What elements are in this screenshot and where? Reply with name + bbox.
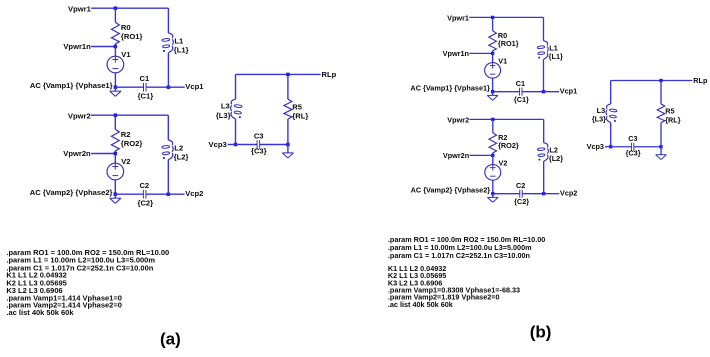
wire resistor top lead — [114, 115, 116, 129]
wire mid rail — [91, 46, 115, 48]
wire bottom rail right — [522, 91, 544, 93]
svg-text:{L3}: {L3} — [216, 111, 231, 120]
wire right rail upper — [167, 8, 169, 33]
wire right rail upper — [542, 17, 544, 40]
junction bottom left — [114, 85, 118, 89]
svg-text:{L3}: {L3} — [592, 115, 606, 124]
ground — [492, 92, 494, 96]
wire right rail lower — [660, 123, 662, 147]
capacitor C1 — [519, 88, 521, 96]
junction mid — [114, 152, 118, 156]
resistor R2 — [111, 129, 119, 150]
wire right rail upper — [287, 74, 289, 99]
svg-text:Vpwr2: Vpwr2 — [447, 116, 469, 125]
wire top rail — [91, 114, 168, 116]
svg-text:AC {Vamp2} {Vphase2}: AC {Vamp2} {Vphase2} — [30, 188, 113, 197]
wire bottom rail right — [260, 144, 288, 146]
svg-text:Vpwr1n: Vpwr1n — [63, 42, 91, 51]
svg-text:Vcp3: Vcp3 — [209, 140, 227, 149]
svg-text:{C3}: {C3} — [251, 147, 267, 156]
svg-text:(b): (b) — [530, 322, 552, 341]
svg-text:Vpwr1: Vpwr1 — [447, 14, 469, 23]
svg-text:L2: L2 — [549, 146, 558, 155]
svg-text:V2: V2 — [121, 157, 130, 166]
wire Vcp2 stub — [168, 193, 184, 195]
junction bottom right — [542, 192, 545, 195]
wire bottom rail left — [236, 144, 258, 146]
wire bottom rail right — [146, 86, 168, 88]
inductor L3 — [607, 104, 611, 109]
wire mid rail — [469, 154, 492, 156]
svg-text:.ac list 40k 50k 60k: .ac list 40k 50k 60k — [6, 308, 74, 317]
resistor R0 — [489, 31, 497, 51]
svg-text:R0: R0 — [121, 23, 131, 32]
svg-text:R5: R5 — [292, 102, 302, 111]
resistor R5 — [284, 99, 292, 119]
junction bottom right — [659, 145, 662, 148]
spice directives (a) — [6, 248, 169, 317]
wire left rail upper — [235, 74, 237, 99]
wire resistor top lead — [492, 17, 494, 30]
junction bottom right — [167, 192, 171, 196]
wire right rail lower — [287, 119, 289, 145]
wire bottom rail left — [493, 91, 520, 93]
svg-text:Vpwr2n: Vpwr2n — [63, 149, 91, 158]
wire top rail — [91, 7, 168, 9]
ground — [287, 145, 289, 153]
svg-text:L2: L2 — [174, 144, 183, 153]
wire bottom rail right — [634, 146, 661, 148]
svg-text:C3: C3 — [628, 134, 637, 143]
wire resistor top lead — [114, 8, 116, 22]
wire right rail upper — [167, 115, 169, 140]
inductor L3 — [231, 99, 235, 104]
capacitor C3 — [630, 143, 632, 151]
wire bottom rail left — [611, 146, 632, 148]
svg-text:R2: R2 — [121, 130, 131, 139]
resistor R0 — [111, 22, 119, 43]
voltage source V1 — [107, 56, 124, 73]
wire top rail — [469, 118, 543, 120]
svg-text:{RO2}: {RO2} — [498, 141, 519, 150]
junction bottom left — [114, 192, 118, 196]
schematic (b) source block 1 — [410, 14, 577, 105]
inductor L1 — [543, 41, 547, 46]
junction bottom left — [491, 192, 494, 195]
svg-text:{C1}: {C1} — [514, 95, 529, 104]
wire top rail — [611, 80, 693, 82]
junction mid — [491, 154, 494, 157]
wire source top lead — [114, 47, 116, 57]
wire bottom rail right — [522, 193, 544, 195]
svg-text:.ac list 40k 50k 60k: .ac list 40k 50k 60k — [388, 300, 454, 309]
svg-text:{L1}: {L1} — [174, 46, 189, 55]
capacitor C2 — [142, 190, 144, 199]
svg-text:AC {Vamp1} {Vphase1}: AC {Vamp1} {Vphase1} — [30, 81, 113, 90]
wire right rail lower — [167, 160, 169, 195]
junction top — [114, 6, 118, 10]
ground — [660, 147, 662, 155]
wire bottom rail right — [146, 193, 168, 195]
svg-text:L3: L3 — [597, 106, 606, 115]
svg-text:V2: V2 — [498, 158, 507, 167]
svg-text:Vpwr1n: Vpwr1n — [443, 49, 469, 58]
svg-text:V1: V1 — [498, 56, 507, 65]
wire left rail upper — [610, 81, 612, 105]
svg-text:R5: R5 — [665, 107, 674, 116]
svg-text:Vcp1: Vcp1 — [560, 87, 577, 96]
svg-text:Vcp2: Vcp2 — [185, 189, 203, 198]
junction bottom right — [286, 143, 290, 147]
svg-text:{RL}: {RL} — [292, 112, 308, 121]
wire right rail lower — [542, 59, 544, 91]
wire source bottom lead — [492, 180, 494, 194]
inductor L1 — [168, 33, 172, 38]
wire source top lead — [114, 154, 116, 164]
ground — [114, 194, 116, 198]
wire Vcp1 stub — [168, 86, 184, 88]
capacitor C3 — [256, 140, 258, 149]
voltage source V2 — [485, 165, 501, 181]
voltage source V2 — [107, 163, 124, 180]
wire right rail upper — [543, 119, 545, 142]
svg-text:Vcp2: Vcp2 — [560, 189, 577, 198]
svg-text:{L1}: {L1} — [549, 52, 563, 61]
svg-text:(a): (a) — [160, 330, 181, 349]
wire resistor top lead — [492, 119, 494, 132]
wire Vcp2 stub — [544, 193, 560, 195]
schematic (a) source block 1 — [30, 5, 204, 101]
svg-text:RLp: RLp — [693, 76, 708, 85]
wire left rail lower — [610, 123, 612, 147]
svg-text:{C2}: {C2} — [514, 197, 529, 206]
svg-text:{L2}: {L2} — [174, 153, 189, 162]
svg-text:C2: C2 — [516, 181, 525, 190]
ground — [492, 194, 494, 198]
wire source bottom lead — [114, 73, 116, 87]
junction top — [286, 73, 290, 77]
wire right rail upper — [660, 81, 662, 104]
junction bottom left — [491, 90, 494, 93]
wire left rail lower — [235, 119, 237, 145]
wire top rail — [469, 16, 543, 18]
schematic (a) source block 2 — [30, 112, 204, 208]
wire bottom rail left — [493, 193, 520, 195]
wire Vcp3 stub — [228, 144, 236, 146]
wire right rail lower — [543, 161, 545, 193]
svg-text:Vpwr2n: Vpwr2n — [443, 151, 469, 160]
wire Vcp1 stub — [543, 91, 559, 93]
svg-text:{RL}: {RL} — [665, 115, 681, 124]
wire mid rail — [469, 52, 492, 54]
junction bottom left — [609, 145, 612, 148]
svg-text:C1: C1 — [516, 79, 525, 88]
svg-text:C3: C3 — [254, 131, 264, 140]
resistor R5 — [657, 104, 665, 123]
junction bottom left — [234, 143, 238, 147]
wire source top lead — [492, 53, 494, 62]
wire source bottom lead — [114, 180, 116, 194]
inductor L2 — [544, 143, 548, 148]
junction top — [114, 113, 118, 117]
svg-text:V1: V1 — [121, 50, 131, 59]
svg-text:{RO1}: {RO1} — [498, 39, 519, 48]
svg-text:AC {Vamp2} {Vphase2}: AC {Vamp2} {Vphase2} — [411, 186, 491, 195]
svg-text:Vcp3: Vcp3 — [587, 142, 604, 151]
svg-text:{RO1}: {RO1} — [121, 32, 143, 41]
wire source top lead — [492, 155, 494, 164]
schematic (b) source block 2 — [411, 116, 578, 207]
junction bottom right — [542, 90, 545, 93]
junction mid — [114, 45, 118, 49]
svg-text:{C2}: {C2} — [137, 198, 153, 207]
schematic (b) load block — [587, 76, 708, 159]
ground — [114, 87, 116, 91]
junction top — [491, 16, 494, 19]
svg-text:{RO2}: {RO2} — [121, 139, 143, 148]
wire bottom rail left — [115, 193, 143, 195]
wire source bottom lead — [492, 78, 494, 92]
spice directives (b) — [388, 235, 545, 309]
wire right rail lower — [167, 53, 169, 87]
svg-text:RLp: RLp — [322, 70, 337, 79]
capacitor C1 — [143, 83, 145, 92]
svg-text:{L2}: {L2} — [549, 154, 563, 163]
junction top — [659, 79, 662, 82]
svg-text:AC {Vamp1} {Vphase1}: AC {Vamp1} {Vphase1} — [410, 84, 490, 93]
svg-text:.param C1 = 1.017n C2=252.1n C: .param C1 = 1.017n C2=252.1n C3=10.00n — [388, 251, 530, 260]
inductor L2 — [168, 140, 172, 145]
junction top — [491, 118, 494, 121]
junction mid — [491, 52, 494, 55]
svg-text:Vcp1: Vcp1 — [185, 82, 204, 91]
svg-text:Vpwr2: Vpwr2 — [68, 112, 91, 121]
svg-text:{C1}: {C1} — [138, 91, 154, 100]
svg-text:C2: C2 — [139, 181, 149, 190]
capacitor C2 — [519, 190, 521, 198]
wire mid rail — [91, 153, 115, 155]
svg-text:C1: C1 — [140, 74, 150, 83]
svg-text:L1: L1 — [549, 44, 558, 53]
wire Vcp3 stub — [605, 146, 611, 148]
schematic (a) load block — [209, 70, 337, 158]
svg-text:Vpwr1: Vpwr1 — [68, 5, 92, 14]
junction bottom right — [167, 85, 171, 89]
voltage source V1 — [485, 63, 501, 79]
svg-text:L3: L3 — [221, 102, 230, 111]
resistor R2 — [489, 133, 497, 153]
wire bottom rail left — [115, 86, 143, 88]
svg-text:L1: L1 — [174, 37, 184, 46]
wire top rail — [236, 73, 321, 75]
svg-text:{C3}: {C3} — [626, 148, 641, 157]
